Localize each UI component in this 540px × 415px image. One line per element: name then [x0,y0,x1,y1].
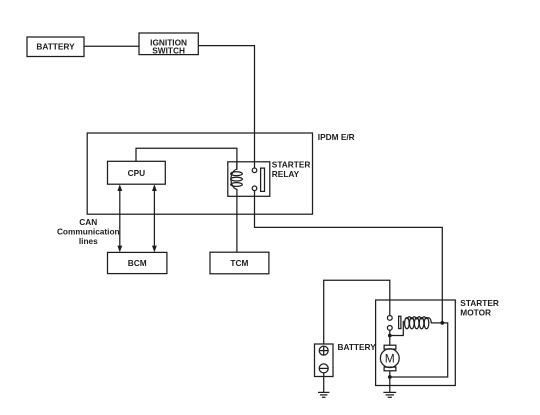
svg-text:BATTERY: BATTERY [338,342,377,352]
CAN bus arrow 1 [117,184,122,252]
solenoid coil [405,317,432,329]
svg-text:Communication: Communication [57,227,120,237]
CPU box [108,161,166,184]
relay coil [231,162,243,197]
ignition switch box [139,33,198,55]
label CAN Communication lines [57,217,120,246]
wire solenoid to node B [431,322,443,324]
relay contact bar [261,168,265,191]
battery negative terminal [319,364,328,373]
relay contact terminal bottom [252,186,257,191]
svg-text:IPDM E/R: IPDM E/R [318,132,355,142]
wire node B to motor return [390,323,448,377]
wire ignition switch to starter relay [198,46,254,168]
junction dot B [440,321,444,325]
battery (bottom) box [315,344,334,377]
wire battery to starter motor [324,280,390,344]
IPDM E/R box [87,133,312,214]
svg-text:RELAY: RELAY [272,169,300,179]
motor brush bottom [384,367,396,371]
motor terminal circle 2 [387,326,392,331]
battery positive terminal [319,346,328,355]
svg-text:CPU: CPU [128,168,146,178]
junction dot C [388,375,392,379]
svg-text:TCM: TCM [230,258,248,268]
battery (top) box [27,37,84,57]
wire relay coil to TCM [236,196,238,252]
svg-text:BCM: BCM [128,258,147,268]
BCM box [108,252,167,273]
starter relay box [228,162,270,197]
motor terminal circle 1 [387,316,392,321]
svg-text:BATTERY: BATTERY [36,42,75,52]
wire relay output to starter motor [255,191,443,322]
motor brush top [384,345,396,349]
svg-text:MOTOR: MOTOR [460,308,491,318]
starter motor box [376,300,456,386]
TCM box [210,252,269,274]
CAN bus arrow 2 [152,184,157,252]
wire CPU to relay coil [136,148,237,169]
svg-text:lines: lines [79,236,98,246]
relay contact terminal top [252,168,257,173]
wire junction to solenoid coil [390,321,404,336]
svg-text:STARTER: STARTER [272,160,311,170]
wire terminal to motor junction [389,330,391,345]
ground under battery [318,392,329,397]
svg-text:CAN: CAN [79,217,97,227]
wire battery to ground [323,373,325,393]
motor body M [380,349,399,368]
svg-text:M: M [385,352,395,366]
wire motor to ground [389,371,391,393]
junction dot A [388,334,392,338]
svg-text:STARTER: STARTER [460,298,499,308]
ground under starter motor [383,392,396,397]
svg-text:SWITCH: SWITCH [152,46,185,56]
wire battery to ignition switch [84,45,139,47]
solenoid plunger bar [399,316,401,328]
